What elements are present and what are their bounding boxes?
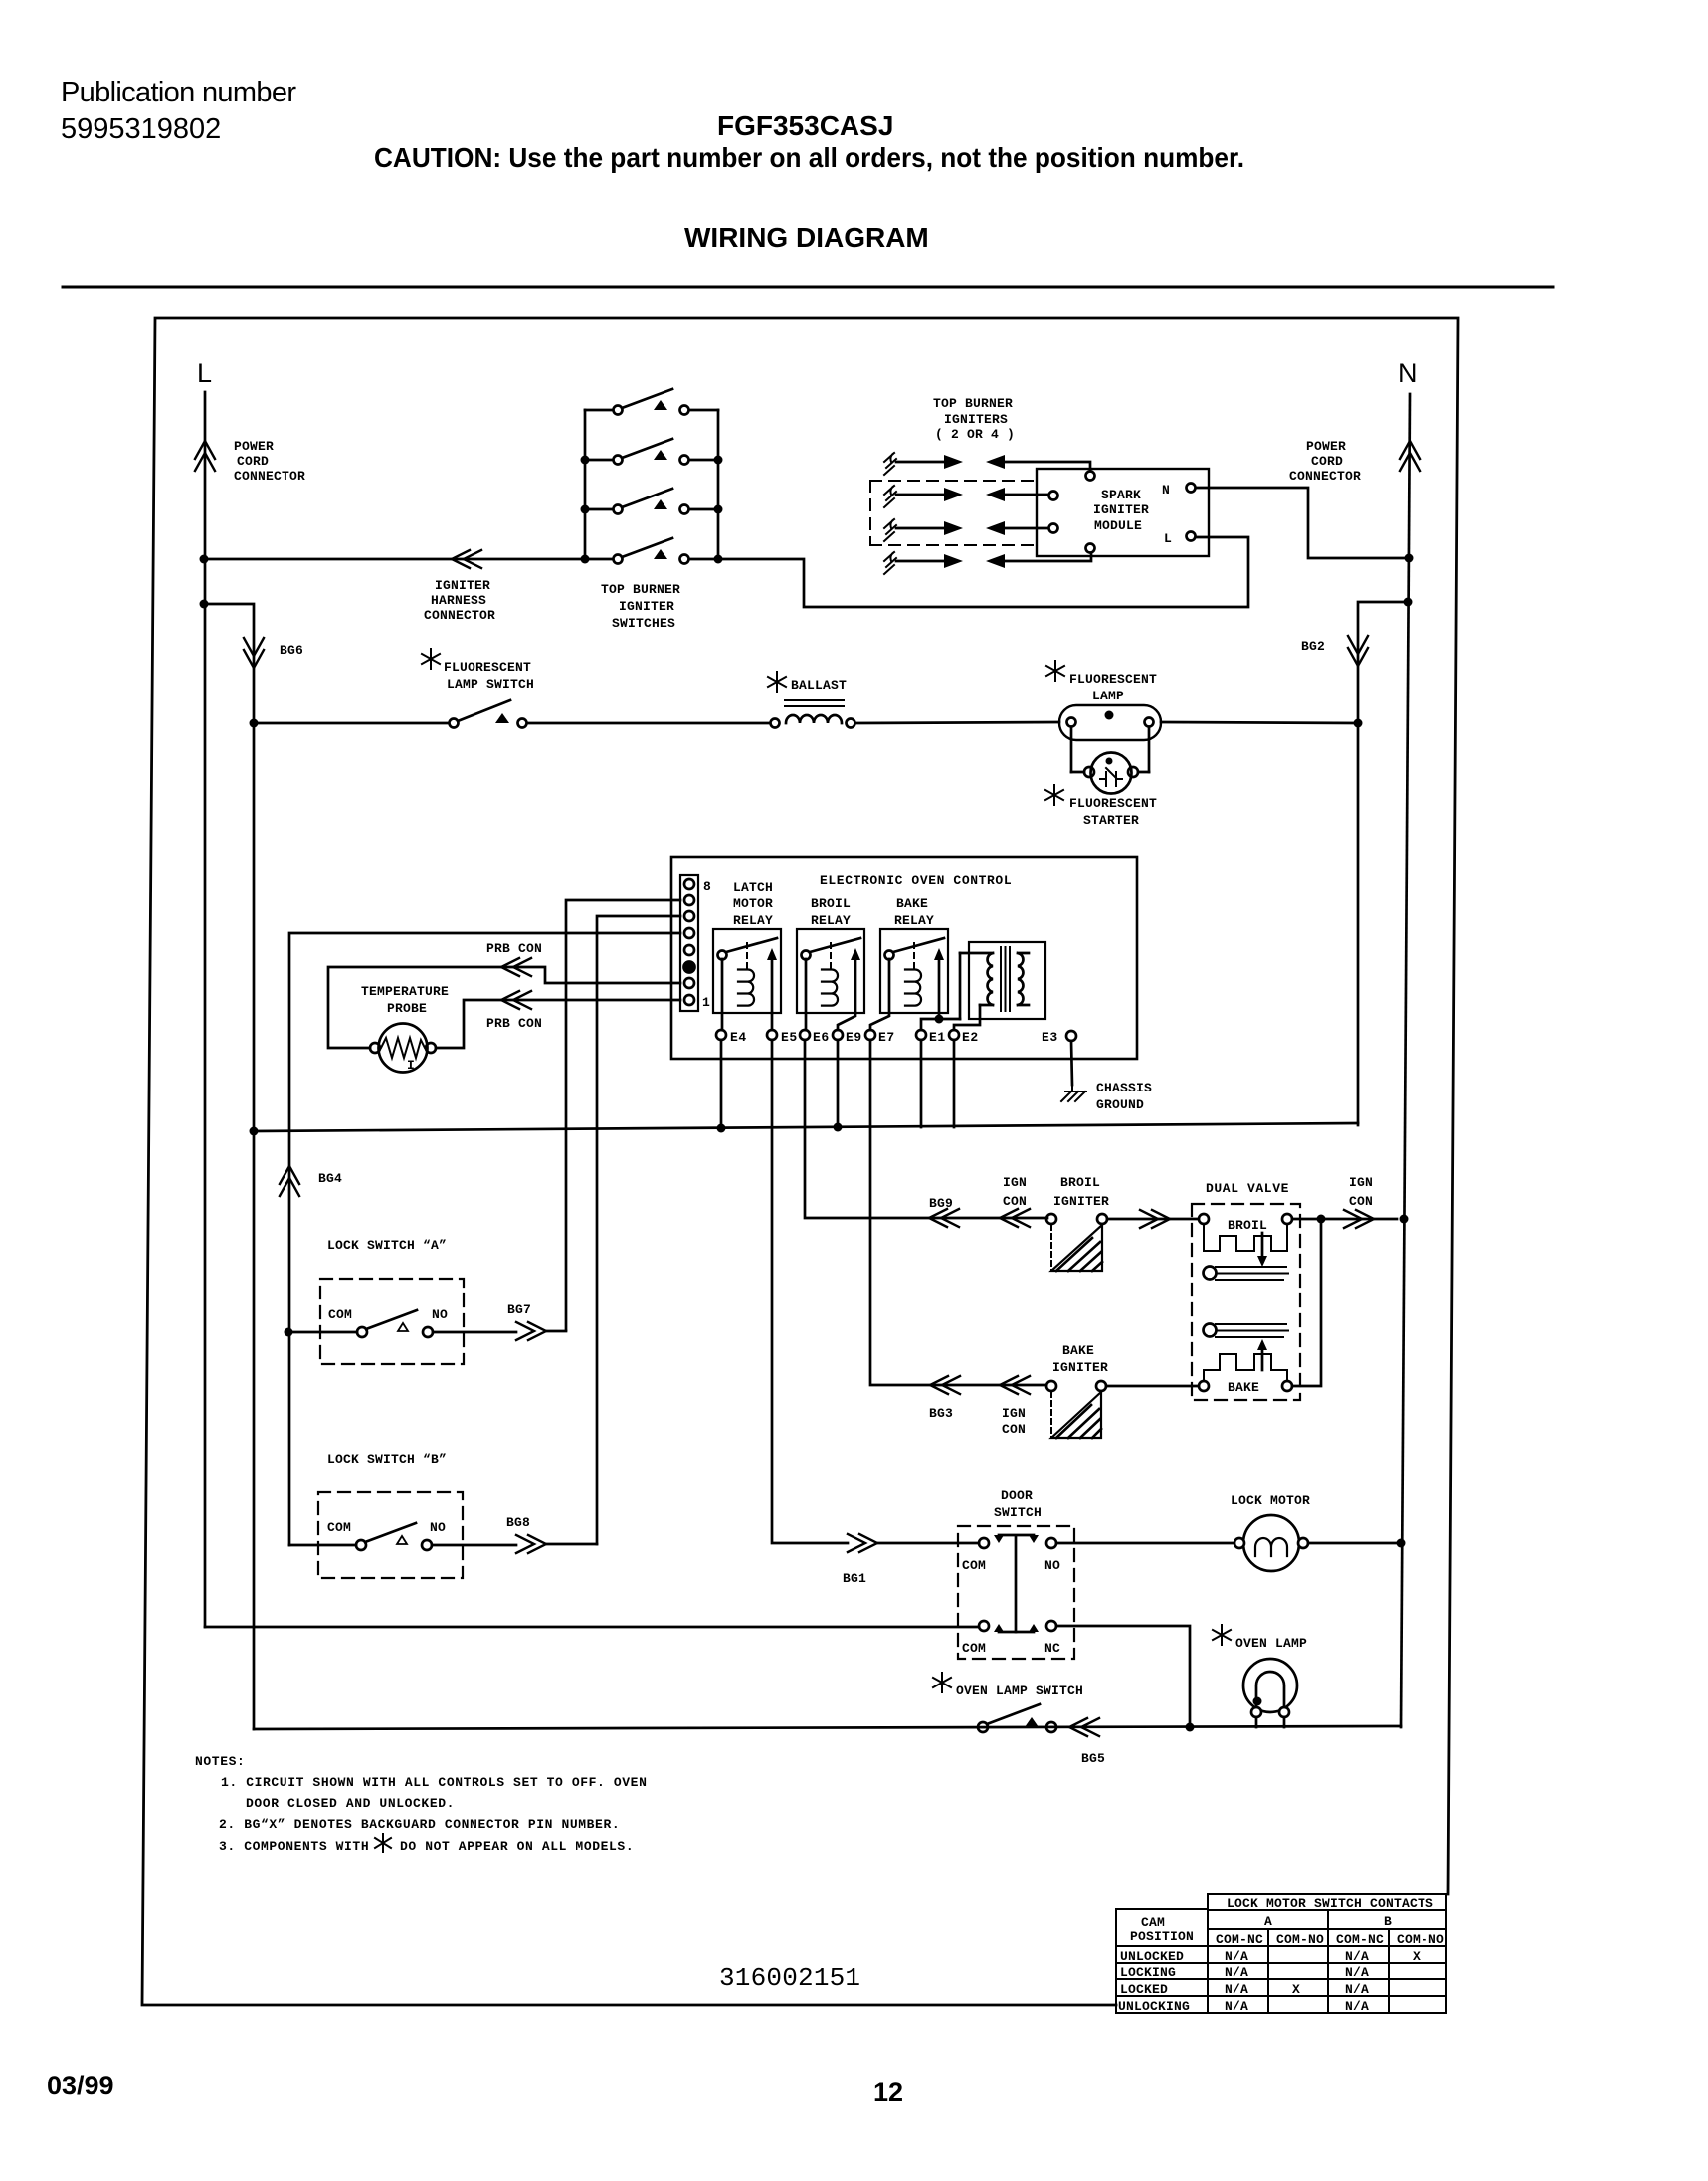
lock switch B dashed box [318, 1492, 463, 1578]
module pin left lower [1049, 524, 1058, 533]
svg-text:03/99: 03/99 [47, 2071, 114, 2100]
svg-text:BG8: BG8 [506, 1515, 530, 1530]
svg-text:LOCK MOTOR SWITCH CONTACTS: LOCK MOTOR SWITCH CONTACTS [1227, 1896, 1433, 1911]
junction dot door NC at bottom bus [1186, 1723, 1195, 1732]
wire E1 node [921, 1019, 960, 1030]
lock motor switch contacts table grid [1116, 1894, 1446, 2013]
svg-text:E3: E3 [1042, 1030, 1058, 1045]
svg-text:BG3: BG3 [929, 1406, 953, 1421]
ground symbol igniter 2 [884, 486, 896, 507]
wire broil arrow to E9 [838, 1013, 855, 1030]
wire bottom bus [254, 1726, 1401, 1729]
svg-text:A: A [1264, 1914, 1272, 1929]
broil valve coil [1204, 1224, 1287, 1251]
svg-text:DOOR: DOOR [1001, 1488, 1033, 1503]
valve broil terminal right [1282, 1214, 1292, 1224]
svg-text:COM-NO: COM-NO [1397, 1932, 1444, 1947]
svg-text:X: X [1292, 1982, 1300, 1997]
svg-text:LAMP: LAMP [1092, 689, 1124, 703]
strip pin 3 (filled) [684, 962, 695, 973]
svg-text:PROBE: PROBE [387, 1001, 427, 1016]
top burner igniter 3 spark gap [896, 527, 1048, 530]
strip pin 8 (top) [684, 879, 694, 889]
svg-text:NO: NO [1044, 1558, 1060, 1573]
svg-text:CON: CON [1349, 1194, 1373, 1209]
svg-text:1: 1 [702, 995, 710, 1010]
transformer T1 [960, 942, 1045, 1019]
svg-text:COM-NC: COM-NC [1216, 1932, 1263, 1947]
wire E6 down to broil igniter row [805, 1040, 1047, 1218]
wire lamp switch to ballast [527, 722, 770, 725]
svg-text:OVEN LAMP: OVEN LAMP [1235, 1636, 1307, 1651]
wire transformer primary top to E1 node [959, 953, 962, 1019]
module pin L [1187, 532, 1196, 541]
svg-text:FLUORESCENT: FLUORESCENT [1069, 796, 1157, 811]
temperature probe [370, 1024, 436, 1073]
svg-text:PRB CON: PRB CON [486, 1016, 542, 1031]
strip pin 4 [684, 945, 694, 955]
svg-text:BG2: BG2 [1301, 639, 1325, 654]
wire lock motor to N [1308, 1542, 1401, 1545]
wire from switches to spark module L loop [718, 537, 1248, 607]
svg-text:2. BG“X” DENOTES BACKGUARD CON: 2. BG“X” DENOTES BACKGUARD CONNECTOR PIN… [219, 1817, 620, 1832]
broil relay [797, 929, 864, 1013]
svg-text:LOCK SWITCH “A”: LOCK SWITCH “A” [327, 1238, 447, 1253]
svg-text:CONNECTOR: CONNECTOR [424, 608, 495, 623]
svg-text:BG4: BG4 [318, 1171, 342, 1186]
door switch dashed box [958, 1526, 1074, 1659]
wire E4 to bus [720, 1040, 723, 1128]
connector BG2 chevron [1348, 636, 1368, 666]
fluorescent starter [1071, 753, 1149, 794]
svg-text:BG7: BG7 [507, 1302, 531, 1317]
svg-text:Publication number: Publication number [61, 77, 296, 108]
svg-text:E9: E9 [846, 1030, 862, 1045]
svg-text:CAUTION: Use the part number: CAUTION: Use the part number on all orde… [374, 142, 1244, 173]
junction dot N at valve row [1400, 1215, 1409, 1224]
fluorescent lamp body [1059, 705, 1161, 740]
svg-text:TOP BURNER: TOP BURNER [601, 582, 680, 597]
junction dot bus at BG6 [250, 1127, 259, 1136]
svg-text:N/A: N/A [1345, 1965, 1369, 1980]
junction dot bake relay output [935, 1015, 944, 1024]
ground symbol igniter 4 [884, 552, 896, 574]
wire L vertical line [204, 392, 207, 1627]
terminal E4 [716, 1030, 726, 1040]
svg-text:PRB CON: PRB CON [486, 941, 542, 956]
svg-text:UNLOCKING: UNLOCKING [1118, 1999, 1190, 2014]
top burner igniter 2 spark gap [896, 494, 1048, 496]
junction dot L bus [200, 555, 209, 564]
wire E1 to bus [920, 1040, 923, 1127]
svg-text:E6: E6 [813, 1030, 830, 1045]
svg-text:E1: E1 [929, 1030, 946, 1045]
connector BG1 chevron [848, 1534, 877, 1552]
connector BG7 chevron [516, 1322, 546, 1340]
svg-text:N/A: N/A [1225, 1982, 1248, 1997]
svg-text:COM-NC: COM-NC [1336, 1932, 1384, 1947]
svg-text:N: N [1398, 358, 1418, 388]
svg-text:( 2 OR 4 ): ( 2 OR 4 ) [935, 427, 1015, 442]
junction dot BG6 branch [200, 600, 209, 609]
wire E5 down to door switch row [772, 1040, 848, 1543]
asterisk fluorescent lamp switch [422, 649, 440, 669]
lamp inner dot [1105, 711, 1114, 720]
wire N vertical line [1401, 394, 1410, 1727]
svg-text:IGN: IGN [1002, 1406, 1026, 1421]
svg-text:DUAL VALVE: DUAL VALVE [1206, 1181, 1289, 1196]
wire strip row7 to probe (upper PRB CON) [328, 967, 680, 1048]
wire lamp row left segment [254, 722, 449, 725]
bake valve arrow [1257, 1339, 1267, 1370]
bake relay [880, 929, 948, 1019]
wire broil igniter to valve [1107, 1218, 1199, 1221]
svg-text:BAKE: BAKE [1228, 1380, 1259, 1395]
IGN CON chevron (broil right) [1140, 1210, 1170, 1228]
module pin N [1187, 484, 1196, 493]
svg-text:8: 8 [703, 879, 711, 893]
ground symbol igniter 1 [884, 453, 896, 475]
svg-text:LOCK MOTOR: LOCK MOTOR [1231, 1493, 1310, 1508]
svg-text:X: X [1413, 1949, 1421, 1964]
wire strip row2 to BG7 riser [566, 900, 680, 1330]
wire lamp to BG2 line [1161, 722, 1358, 723]
bake igniter [1046, 1381, 1106, 1438]
svg-text:IGNITER: IGNITER [619, 599, 674, 614]
svg-text:NOTES:: NOTES: [195, 1754, 245, 1769]
svg-text:SPARK: SPARK [1101, 488, 1141, 502]
wire BG1 to door switch [877, 1542, 979, 1545]
wire BG7 to riser [546, 1330, 566, 1333]
terminal E2 [949, 1030, 959, 1040]
connector BG3 chevron [930, 1376, 960, 1394]
wire L bottom feed to door switch lower COM [205, 1626, 979, 1629]
svg-text:OVEN LAMP SWITCH: OVEN LAMP SWITCH [956, 1684, 1083, 1698]
svg-text:E4: E4 [730, 1030, 747, 1045]
module pin bottom [1086, 544, 1095, 553]
svg-text:POWER: POWER [234, 439, 274, 454]
module pin left upper [1049, 492, 1058, 500]
junction dot N at BG2 branch [1404, 598, 1413, 607]
wire E7 down to bake igniter row [870, 1040, 1046, 1385]
svg-text:CONNECTOR: CONNECTOR [1289, 469, 1361, 484]
top burner igniter switches rails [585, 410, 718, 559]
svg-text:RELAY: RELAY [894, 913, 934, 928]
svg-text:COM: COM [962, 1641, 986, 1656]
svg-text:BG1: BG1 [843, 1571, 866, 1586]
IGN CON chevron (bake left) [1000, 1376, 1030, 1394]
top burner igniter 4 spark gap [896, 553, 1091, 561]
wire bake valve output riser [1292, 1219, 1321, 1386]
svg-text:316002151: 316002151 [719, 1963, 860, 1993]
svg-text:N/A: N/A [1345, 1949, 1369, 1964]
lock motor [1234, 1515, 1308, 1571]
svg-text:N/A: N/A [1345, 1999, 1369, 2014]
svg-text:BALLAST: BALLAST [791, 678, 847, 693]
strip pin 2 [684, 978, 694, 988]
wire transformer primary bottom to E2 [954, 1005, 980, 1030]
wire BG8 to riser [546, 1543, 597, 1546]
svg-text:MODULE: MODULE [1094, 518, 1142, 533]
wire ballast to fluorescent lamp [855, 722, 1059, 723]
terminal E6 [800, 1030, 810, 1040]
connector BG5 chevron [1069, 1718, 1099, 1736]
module pin top [1086, 472, 1095, 481]
svg-text:12: 12 [873, 2078, 903, 2107]
svg-text:BROIL: BROIL [1228, 1218, 1267, 1233]
svg-text:BAKE: BAKE [896, 896, 928, 911]
svg-text:RELAY: RELAY [733, 913, 773, 928]
switch S3 [585, 489, 718, 514]
ground symbol igniter 3 [884, 519, 896, 541]
latch motor relay [713, 929, 781, 1013]
svg-text:BROIL: BROIL [1060, 1175, 1100, 1190]
junction dot E9 bus [834, 1123, 843, 1132]
svg-text:CON: CON [1002, 1422, 1026, 1437]
wire strip row8 to probe (lower PRB CON) [436, 1000, 680, 1048]
svg-text:MOTOR: MOTOR [733, 896, 773, 911]
asterisk oven lamp switch [933, 1673, 951, 1692]
junction dot N at spark module feed [1405, 554, 1414, 563]
junction dot lamp output at BG2 [1354, 719, 1363, 728]
wire latch arrow to E5 [771, 1013, 774, 1030]
junction dot E4 bus [717, 1124, 726, 1133]
dual valve dashed box [1192, 1204, 1300, 1400]
switch S4 [585, 538, 718, 564]
svg-text:DO NOT APPEAR ON ALL MODELS.: DO NOT APPEAR ON ALL MODELS. [400, 1839, 634, 1854]
wire bake pivot to E7 [870, 959, 889, 1030]
wire to BG6 [204, 604, 254, 1729]
svg-text:COM: COM [962, 1558, 986, 1573]
svg-text:TOP BURNER: TOP BURNER [933, 396, 1013, 411]
svg-text:BAKE: BAKE [1062, 1343, 1094, 1358]
wire door NO to lock motor [1056, 1542, 1234, 1545]
strip pin 7 [684, 895, 694, 905]
svg-text:L: L [197, 358, 212, 388]
wire neutral bus [254, 1123, 1358, 1131]
terminal E5 [767, 1030, 777, 1040]
svg-text:CAM: CAM [1141, 1915, 1165, 1930]
svg-text:POWER: POWER [1306, 439, 1346, 454]
svg-text:COM: COM [328, 1307, 352, 1322]
svg-text:BROIL: BROIL [811, 896, 851, 911]
broil igniter [1046, 1214, 1107, 1271]
chassis ground symbol [1061, 1085, 1086, 1101]
junction dot N at lock motor [1397, 1539, 1406, 1548]
svg-text:N/A: N/A [1225, 1999, 1248, 2014]
svg-text:NC: NC [1044, 1641, 1060, 1656]
valve broil terminal left [1199, 1214, 1209, 1224]
svg-text:E2: E2 [962, 1030, 979, 1045]
wire L bus to igniter switches [204, 558, 585, 561]
connector BG9 chevron [929, 1209, 959, 1227]
svg-text:TEMPERATURE: TEMPERATURE [361, 984, 449, 999]
oven lamp [1243, 1659, 1297, 1727]
door switch lower contacts [979, 1621, 1056, 1632]
igniter harness connector chevron [452, 550, 481, 568]
wire door NC to bottom bus [1056, 1626, 1190, 1723]
horizontal rule under title [63, 286, 1553, 289]
door switch upper contacts [979, 1535, 1056, 1632]
terminal E9 [833, 1030, 843, 1040]
asterisk ballast [768, 672, 786, 692]
svg-text:L: L [1164, 531, 1172, 546]
wire broil valve output [1292, 1218, 1397, 1221]
svg-text:B: B [1384, 1914, 1392, 1929]
svg-text:POSITION: POSITION [1130, 1929, 1194, 1944]
junction dot valve outputs [1317, 1215, 1326, 1224]
note 3 asterisk [375, 1834, 391, 1852]
PRB CON chevron lower [501, 991, 531, 1009]
connector BG4 chevron [280, 1166, 299, 1196]
svg-text:IGNITER: IGNITER [1052, 1360, 1108, 1375]
svg-text:SWITCHES: SWITCHES [612, 616, 675, 631]
svg-text:NO: NO [432, 1307, 448, 1322]
lamp terminal right [1145, 718, 1154, 773]
switch S2 [585, 439, 718, 465]
svg-text:LAMP SWITCH: LAMP SWITCH [447, 677, 534, 692]
strip pin 1 (bottom) [684, 995, 694, 1005]
svg-text:N/A: N/A [1225, 1949, 1248, 1964]
broil valve arrow [1257, 1233, 1267, 1267]
asterisk fluorescent starter [1045, 785, 1063, 805]
svg-text:IGNITER: IGNITER [1053, 1194, 1109, 1209]
svg-text:I: I [407, 1058, 415, 1073]
ballast [771, 700, 855, 728]
bake gas outlet [1204, 1324, 1289, 1338]
svg-text:HARNESS: HARNESS [431, 593, 486, 608]
junction dot BG4 at lock switch A [285, 1328, 293, 1337]
svg-text:BG5: BG5 [1081, 1751, 1105, 1766]
svg-text:IGNITERS: IGNITERS [944, 412, 1008, 427]
connector BG8 chevron [516, 1535, 546, 1553]
power cord connector L chevron [195, 441, 215, 471]
svg-text:IGN: IGN [1003, 1175, 1027, 1190]
wire bake igniter to valve [1106, 1385, 1199, 1388]
oven lamp switch [978, 1704, 1056, 1732]
svg-text:LOCK SWITCH “B”: LOCK SWITCH “B” [327, 1452, 447, 1467]
svg-text:STARTER: STARTER [1083, 813, 1139, 828]
strip pin 6 [684, 911, 694, 921]
svg-text:E5: E5 [781, 1030, 798, 1045]
svg-text:DOOR CLOSED AND UNLOCKED.: DOOR CLOSED AND UNLOCKED. [246, 1796, 455, 1811]
svg-text:FLUORESCENT: FLUORESCENT [444, 660, 531, 675]
svg-text:1. CIRCUIT SHOWN WITH ALL CONT: 1. CIRCUIT SHOWN WITH ALL CONTROLS SET T… [221, 1775, 647, 1790]
svg-text:E7: E7 [878, 1030, 895, 1045]
lock switch A [288, 1310, 516, 1337]
IGN CON chevron (broil left) [1000, 1209, 1030, 1227]
junction dots on switch rails [581, 456, 723, 564]
strip pin 5 [684, 928, 694, 938]
wire strip row4 to BG4 riser [289, 933, 680, 1545]
svg-text:CORD: CORD [237, 454, 269, 469]
svg-text:N: N [1162, 483, 1170, 497]
svg-text:COM-NO: COM-NO [1276, 1932, 1324, 1947]
svg-text:UNLOCKED: UNLOCKED [1120, 1949, 1184, 1964]
svg-text:N/A: N/A [1345, 1982, 1369, 1997]
svg-text:3. COMPONENTS WITH: 3. COMPONENTS WITH [219, 1839, 369, 1854]
asterisk fluorescent lamp [1046, 661, 1064, 681]
valve bake terminal right [1282, 1381, 1292, 1391]
IGN CON chevron (valve right) [1344, 1210, 1374, 1228]
valve bake terminal left [1199, 1381, 1209, 1391]
svg-text:FGF353CASJ: FGF353CASJ [717, 110, 893, 141]
wire E3 to chassis ground [1071, 1041, 1072, 1085]
connector BG6 chevron [244, 638, 264, 668]
svg-text:N/A: N/A [1225, 1965, 1248, 1980]
electronic oven control box [671, 857, 1137, 1059]
lock switch B [289, 1523, 516, 1550]
dashed box optional igniters [870, 481, 1037, 545]
wire latch pivot to E4 [721, 959, 724, 1030]
svg-text:CON: CON [1003, 1194, 1027, 1209]
wire BG2 branch [1358, 602, 1408, 1125]
wire broil pivot to E6 [805, 959, 808, 1030]
wire E9 to bus [837, 1040, 840, 1127]
svg-text:5995319802: 5995319802 [61, 113, 221, 145]
lock switch A dashed box [320, 1279, 464, 1364]
svg-text:IGNITER: IGNITER [1093, 502, 1149, 517]
asterisk oven lamp [1213, 1625, 1231, 1645]
svg-text:GROUND: GROUND [1096, 1097, 1144, 1112]
EOC connector strip [680, 875, 698, 1011]
svg-text:LATCH: LATCH [733, 880, 773, 894]
svg-text:NO: NO [430, 1520, 446, 1535]
terminal E7 [865, 1030, 875, 1040]
svg-text:RELAY: RELAY [811, 913, 851, 928]
junction dot lamp row at BG6 [250, 719, 259, 728]
wire E2 to bus [953, 1040, 956, 1127]
spark igniter module box [1037, 469, 1209, 556]
svg-text:WIRING DIAGRAM: WIRING DIAGRAM [684, 222, 929, 253]
wire strip row3 to BG8 riser [597, 916, 680, 1544]
svg-text:SWITCH: SWITCH [994, 1505, 1042, 1520]
PRB CON chevron upper [501, 958, 531, 976]
svg-text:BG9: BG9 [929, 1196, 953, 1211]
wire module N to neutral line [1197, 488, 1409, 558]
lamp terminal left [1067, 718, 1076, 773]
svg-text:BG6: BG6 [280, 643, 303, 658]
svg-text:CORD: CORD [1311, 454, 1343, 469]
terminal E1 [916, 1030, 926, 1040]
switch S1 (top burner igniter switch 1) [585, 389, 718, 415]
broil gas outlet [1204, 1267, 1289, 1281]
svg-text:CHASSIS: CHASSIS [1096, 1081, 1152, 1095]
svg-text:LOCKING: LOCKING [1120, 1965, 1176, 1980]
svg-text:LOCKED: LOCKED [1120, 1982, 1168, 1997]
fluorescent lamp switch [450, 700, 527, 728]
svg-text:COM: COM [327, 1520, 351, 1535]
svg-text:IGN: IGN [1349, 1175, 1373, 1190]
bake valve coil [1204, 1354, 1287, 1381]
svg-text:IGNITER: IGNITER [435, 578, 490, 593]
svg-text:CONNECTOR: CONNECTOR [234, 469, 305, 484]
top burner igniter 1 spark gap [896, 462, 1090, 471]
svg-text:FLUORESCENT: FLUORESCENT [1069, 672, 1157, 687]
power cord connector N chevron [1400, 441, 1420, 471]
terminal E3 [1066, 1031, 1076, 1041]
svg-text:ELECTRONIC OVEN CONTROL: ELECTRONIC OVEN CONTROL [820, 873, 1012, 888]
